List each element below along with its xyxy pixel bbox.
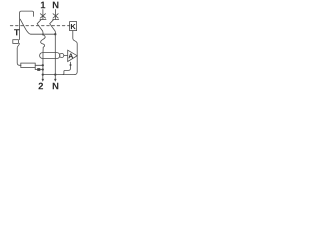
trip coil block (filled) [37,68,40,71]
wire pole1 to terminal 2 [42,75,44,80]
arrow terminal N (bottom) [54,79,57,82]
toroid secondary circle [60,53,64,57]
relay box K [70,22,77,31]
junction dot amp supply [70,64,72,66]
contact blade poleN [50,20,56,35]
terminal label 1 [41,2,45,9]
trip coil lead to phase [35,68,43,70]
terminal clamp X pole1 [40,14,45,18]
wire pole1 input [42,10,44,20]
junction dot test-N [54,33,56,35]
fixed contact bar poleN [53,19,59,21]
junction dot bottom-N [54,73,56,75]
linkage dashed line [10,25,70,27]
label A [68,53,73,58]
junction dot test-phase [42,33,44,35]
bottom horizontal wire [43,74,75,76]
junction dot resistor-phase [42,64,44,66]
label T [14,29,19,35]
test wire to N [31,33,56,35]
junction dot bottom-phase [42,73,44,75]
junction dot coil-phase [42,68,44,70]
fixed contact bar pole1 [40,19,46,21]
terminal label 2 [38,83,43,90]
wire secondary to amplifier [64,55,68,57]
test resistor R [21,63,35,67]
terminal label N (bottom) [53,83,59,90]
wire poleN to terminal N [54,75,56,80]
wire poleN down [54,34,56,74]
arrow terminal 2 [42,79,45,82]
test button actuator [13,40,19,44]
wire amp supply down [63,62,71,74]
label K [71,24,76,29]
terminal clamp X poleN [53,14,58,18]
test wire from button down [17,43,21,65]
wire K to amplifier vertical [73,31,77,75]
test button T wire vertical [20,11,34,39]
toroid current transformer [40,53,60,59]
wire poleN input [55,10,57,20]
amplifier triangle [68,50,78,61]
contact blade pole1 [37,20,43,35]
resistor lead to phase [35,64,43,66]
terminal label N (top) [53,2,59,9]
test contact blade [20,19,31,34]
wire squiggle to toroid [42,48,44,75]
thermal trip squiggle pole1 [41,34,45,47]
